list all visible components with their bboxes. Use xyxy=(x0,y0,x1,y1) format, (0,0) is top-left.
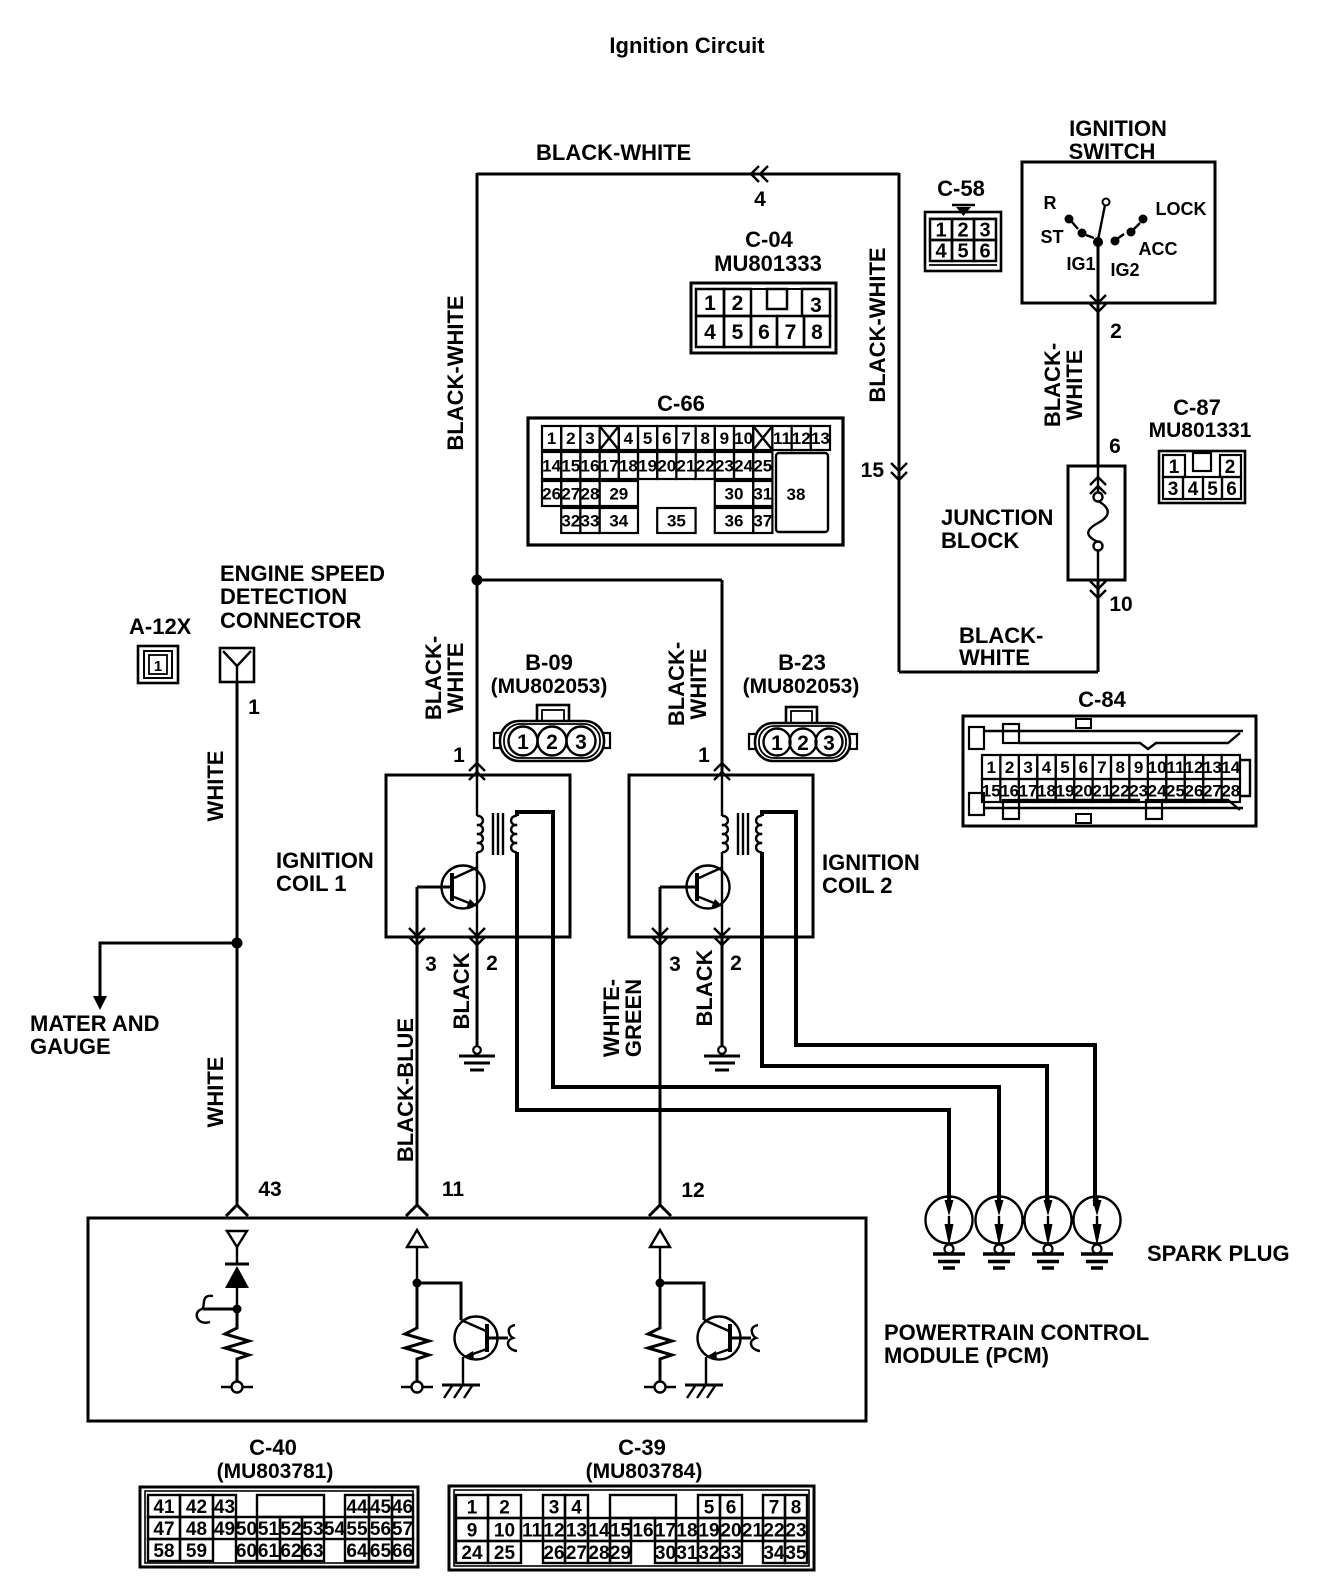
svg-text:21: 21 xyxy=(677,457,696,476)
powertrain control module label xyxy=(884,1320,1149,1368)
svg-text:20: 20 xyxy=(720,1520,741,1541)
pickup coil symbol (PCM 12) xyxy=(751,1325,760,1351)
svg-text:29: 29 xyxy=(610,1543,631,1564)
svg-text:26: 26 xyxy=(1184,782,1203,801)
svg-text:23: 23 xyxy=(1129,782,1148,801)
svg-text:48: 48 xyxy=(186,1519,207,1540)
svg-text:4: 4 xyxy=(1188,479,1199,500)
svg-text:IG2: IG2 xyxy=(1110,260,1139,280)
svg-text:13: 13 xyxy=(566,1520,587,1541)
arrow left on top bus xyxy=(751,166,768,182)
connector C-58 keying symbol xyxy=(952,205,975,216)
svg-text:C-84: C-84 xyxy=(1078,687,1126,712)
svg-text:6: 6 xyxy=(1079,758,1088,777)
svg-text:9: 9 xyxy=(1134,758,1143,777)
svg-text:57: 57 xyxy=(392,1519,413,1540)
svg-text:21: 21 xyxy=(742,1520,764,1541)
svg-text:A-12X: A-12X xyxy=(129,614,192,639)
svg-text:4: 4 xyxy=(704,321,716,344)
arrow up inside junction block xyxy=(1090,477,1106,494)
ground (PCM 12) xyxy=(685,1385,723,1398)
pin 1 label (coil 2) xyxy=(698,744,710,767)
ignition coil 1 transformer xyxy=(477,775,517,855)
label BLACK-WHITE (junction block output) xyxy=(959,623,1043,670)
svg-text:24: 24 xyxy=(461,1543,483,1564)
svg-text:WHITE: WHITE xyxy=(1062,350,1087,421)
svg-text:54: 54 xyxy=(324,1519,346,1540)
svg-text:4: 4 xyxy=(935,241,947,263)
svg-text:8: 8 xyxy=(1115,758,1124,777)
svg-text:8: 8 xyxy=(791,1497,802,1518)
engine speed detection connector symbol xyxy=(220,648,254,682)
wire top horizontal BLACK-WHITE bus xyxy=(477,173,899,176)
wire PCM 12 vertical xyxy=(659,1247,661,1283)
wire horizontal split to coil 2 xyxy=(477,579,722,582)
svg-text:27: 27 xyxy=(561,485,580,504)
svg-text:23: 23 xyxy=(715,457,734,476)
svg-text:3: 3 xyxy=(669,953,681,976)
svg-text:WHITE: WHITE xyxy=(686,649,711,720)
svg-text:1: 1 xyxy=(1169,457,1180,478)
pin 2 label (coil 2) xyxy=(730,952,742,975)
wire PCM 43 branch left xyxy=(203,1308,237,1311)
svg-text:11: 11 xyxy=(522,1520,543,1541)
connector C-58 xyxy=(925,212,1001,271)
svg-text:1: 1 xyxy=(467,1497,478,1518)
label WHITE (lower) xyxy=(203,1057,228,1128)
svg-text:59: 59 xyxy=(186,1541,207,1562)
transistor Q2 (ignition coil 2) xyxy=(660,852,730,937)
svg-text:12: 12 xyxy=(792,429,811,448)
connector C-58 label xyxy=(937,176,985,201)
svg-text:C-04: C-04 xyxy=(745,227,793,252)
svg-text:22: 22 xyxy=(696,457,715,476)
svg-text:4: 4 xyxy=(624,429,634,448)
pin 6 label xyxy=(1109,435,1121,458)
wire coil 2 feed vertical xyxy=(721,580,724,775)
wire coil 1 secondary bottom to spark plug 1 xyxy=(517,852,949,1206)
wire bottom horizontal to junction block xyxy=(899,671,1098,674)
connector C-66 xyxy=(528,418,843,545)
arrow down at pin 15 xyxy=(891,463,907,480)
svg-text:18: 18 xyxy=(619,457,638,476)
pin 15 label xyxy=(861,459,885,482)
ignition coil 2 box xyxy=(629,775,813,937)
spark plug 3 xyxy=(1025,1196,1072,1268)
pin 10 label xyxy=(1109,593,1132,616)
svg-text:60: 60 xyxy=(236,1541,257,1562)
svg-text:14: 14 xyxy=(542,457,561,476)
svg-text:MU801333: MU801333 xyxy=(714,251,822,276)
svg-text:6: 6 xyxy=(726,1497,737,1518)
pin entry marker at PCM pin 12 xyxy=(649,1205,671,1216)
svg-text:4: 4 xyxy=(571,1497,582,1518)
transistor Q1 (ignition coil 1) xyxy=(417,852,485,937)
label MATER AND GAUGE xyxy=(30,1011,160,1059)
svg-text:26: 26 xyxy=(542,485,561,504)
svg-text:12: 12 xyxy=(1184,758,1203,777)
svg-text:22: 22 xyxy=(1111,782,1130,801)
svg-text:7: 7 xyxy=(769,1497,780,1518)
node PCM 11 junction xyxy=(413,1279,422,1288)
svg-text:31: 31 xyxy=(676,1543,698,1564)
svg-text:3: 3 xyxy=(1023,758,1032,777)
pin 1 label (engine speed connector) xyxy=(248,696,260,719)
svg-text:6: 6 xyxy=(1109,435,1121,458)
svg-text:WHITE: WHITE xyxy=(959,645,1030,670)
label WHITE (upper) xyxy=(203,751,228,822)
svg-text:9: 9 xyxy=(467,1520,478,1541)
svg-text:6: 6 xyxy=(662,429,671,448)
arrow down below switch xyxy=(1090,295,1106,312)
wire left vertical BLACK-WHITE (to coils) xyxy=(476,173,479,775)
svg-text:13: 13 xyxy=(1203,758,1222,777)
svg-text:5: 5 xyxy=(704,1497,715,1518)
svg-text:C-66: C-66 xyxy=(657,391,705,416)
svg-text:MU801331: MU801331 xyxy=(1149,419,1252,442)
arrow up into coil 1 xyxy=(469,763,485,780)
connector C-87 xyxy=(1159,451,1245,503)
svg-text:65: 65 xyxy=(370,1541,392,1562)
svg-text:28: 28 xyxy=(581,485,600,504)
contact R xyxy=(1065,215,1079,230)
svg-text:43: 43 xyxy=(214,1497,235,1518)
svg-text:C-39: C-39 xyxy=(618,1435,666,1460)
svg-text:38: 38 xyxy=(787,485,806,504)
PCM pin 43 input marker xyxy=(227,1231,247,1247)
wire switch to junction block xyxy=(1097,303,1100,466)
svg-text:29: 29 xyxy=(609,485,628,504)
svg-text:13: 13 xyxy=(811,429,830,448)
ignition coil 2 label xyxy=(822,850,920,898)
arrow down coil2 pin3 xyxy=(652,928,668,945)
svg-text:25: 25 xyxy=(753,457,772,476)
resistor (PCM 12) xyxy=(648,1283,672,1382)
svg-text:24: 24 xyxy=(1148,782,1167,801)
svg-text:2: 2 xyxy=(1225,457,1236,478)
svg-text:B-23: B-23 xyxy=(778,650,826,675)
svg-text:28: 28 xyxy=(588,1543,609,1564)
pin 1 label (coil 1) xyxy=(453,744,465,767)
svg-text:DETECTION: DETECTION xyxy=(220,584,347,609)
svg-text:15: 15 xyxy=(861,459,885,482)
svg-text:4: 4 xyxy=(754,188,766,211)
svg-text:32: 32 xyxy=(561,512,580,531)
spark plug 1 xyxy=(926,1196,973,1268)
svg-text:1: 1 xyxy=(935,220,946,242)
svg-text:30: 30 xyxy=(725,485,744,504)
svg-text:31: 31 xyxy=(753,485,772,504)
svg-text:1: 1 xyxy=(986,758,995,777)
connector C-87 labels xyxy=(1149,395,1252,442)
svg-text:17: 17 xyxy=(655,1520,676,1541)
svg-text:47: 47 xyxy=(153,1519,174,1540)
svg-text:BLACK: BLACK xyxy=(449,952,474,1029)
pin 12 label xyxy=(681,1179,704,1202)
svg-text:POWERTRAIN CONTROL: POWERTRAIN CONTROL xyxy=(884,1320,1149,1345)
svg-text:MATER AND: MATER AND xyxy=(30,1011,160,1036)
svg-text:1: 1 xyxy=(248,696,260,719)
svg-text:17: 17 xyxy=(600,457,619,476)
ground (coil 2) xyxy=(704,1046,740,1070)
ignition switch label xyxy=(1069,116,1167,164)
contact LOCK xyxy=(1139,215,1148,224)
powertrain control module box xyxy=(88,1218,866,1421)
svg-text:2: 2 xyxy=(486,952,498,975)
label BLACK-WHITE (top bus) xyxy=(536,140,691,165)
svg-text:20: 20 xyxy=(1074,782,1093,801)
svg-text:10: 10 xyxy=(494,1520,515,1541)
svg-text:4: 4 xyxy=(1042,758,1052,777)
svg-text:27: 27 xyxy=(566,1543,587,1564)
PCM pin 12 input marker xyxy=(650,1230,670,1247)
wire PCM 11 branch to transistor xyxy=(417,1283,461,1320)
label BLACK (coil 2 ground wire) xyxy=(692,949,717,1026)
svg-text:6: 6 xyxy=(979,241,990,263)
svg-text:ENGINE SPEED: ENGINE SPEED xyxy=(220,561,385,586)
ignition switch common contact xyxy=(1093,237,1103,247)
arrow down coil1 pin3 xyxy=(409,928,425,945)
svg-text:35: 35 xyxy=(785,1543,807,1564)
resistor (PCM 43) xyxy=(225,1309,249,1382)
svg-text:16: 16 xyxy=(581,457,600,476)
svg-text:1: 1 xyxy=(771,732,783,755)
ignition switch lever xyxy=(1098,205,1105,240)
svg-text:IGNITION: IGNITION xyxy=(1069,116,1167,141)
wire WHITE vertical xyxy=(236,682,239,1205)
svg-text:C-58: C-58 xyxy=(937,176,985,201)
svg-text:66: 66 xyxy=(392,1541,413,1562)
contact IG2 xyxy=(1111,234,1125,246)
svg-text:GREEN: GREEN xyxy=(621,979,646,1057)
svg-text:32: 32 xyxy=(698,1543,719,1564)
svg-text:BLACK: BLACK xyxy=(692,949,717,1026)
svg-text:63: 63 xyxy=(302,1541,323,1562)
svg-text:6: 6 xyxy=(1226,479,1237,500)
pin 2 label (coil 1) xyxy=(486,952,498,975)
connector C-66 label xyxy=(657,391,705,416)
svg-text:46: 46 xyxy=(392,1497,413,1518)
svg-text:18: 18 xyxy=(676,1520,697,1541)
connector A-12X xyxy=(138,646,178,683)
pin 11 label xyxy=(442,1178,465,1201)
arrow down coil1 pin2 xyxy=(469,928,485,945)
connector B-23 xyxy=(749,707,857,761)
svg-text:62: 62 xyxy=(280,1541,301,1562)
spark plug 2 xyxy=(976,1196,1023,1268)
wire junction block down xyxy=(1097,580,1100,672)
wire BLACK-BLUE coil1 pin3 to PCM 11 xyxy=(416,887,419,1205)
svg-text:1: 1 xyxy=(517,731,529,754)
svg-text:2: 2 xyxy=(957,220,968,242)
svg-text:45: 45 xyxy=(370,1497,392,1518)
svg-text:8: 8 xyxy=(811,321,823,344)
svg-text:IG1: IG1 xyxy=(1066,254,1095,274)
svg-text:3: 3 xyxy=(810,294,822,317)
svg-text:14: 14 xyxy=(588,1520,610,1541)
wire PCM 11 vertical xyxy=(416,1247,418,1283)
svg-text:2: 2 xyxy=(732,292,744,315)
label BLACK-WHITE (coil 2 feed) xyxy=(664,642,711,726)
svg-text:3: 3 xyxy=(979,220,990,242)
svg-text:10: 10 xyxy=(1109,593,1132,616)
ignition switch box xyxy=(1022,162,1215,303)
resistor (PCM 11) xyxy=(405,1283,429,1382)
svg-text:3: 3 xyxy=(549,1497,560,1518)
svg-text:WHITE: WHITE xyxy=(203,751,228,822)
transistor (PCM 12) xyxy=(698,1317,752,1386)
svg-text:53: 53 xyxy=(302,1519,323,1540)
svg-text:61: 61 xyxy=(258,1541,280,1562)
svg-text:6: 6 xyxy=(758,321,770,344)
connector C-84 xyxy=(963,716,1256,826)
engine speed detection connector label xyxy=(220,561,385,633)
junction block label xyxy=(941,505,1053,553)
svg-text:55: 55 xyxy=(346,1519,368,1540)
svg-text:LOCK: LOCK xyxy=(1156,199,1207,219)
svg-text:26: 26 xyxy=(543,1543,564,1564)
svg-text:3: 3 xyxy=(823,732,835,755)
svg-text:34: 34 xyxy=(609,512,628,531)
svg-text:51: 51 xyxy=(258,1519,280,1540)
node junction to meter xyxy=(232,938,243,949)
svg-text:7: 7 xyxy=(785,321,797,344)
svg-text:10: 10 xyxy=(734,429,753,448)
coil pickup symbol (PCM 43) xyxy=(197,1296,213,1323)
svg-text:CONNECTOR: CONNECTOR xyxy=(220,608,361,633)
svg-text:BLACK-WHITE: BLACK-WHITE xyxy=(443,295,468,450)
svg-text:(MU803784): (MU803784) xyxy=(586,1460,703,1483)
svg-text:15: 15 xyxy=(610,1520,632,1541)
arrow up into coil 2 xyxy=(714,763,730,780)
svg-text:5: 5 xyxy=(957,241,968,263)
svg-text:(MU802053): (MU802053) xyxy=(491,675,608,698)
svg-text:37: 37 xyxy=(753,512,772,531)
terminal (PCM 12) xyxy=(644,1382,676,1393)
svg-text:(MU803781): (MU803781) xyxy=(217,1460,334,1483)
svg-text:SWITCH: SWITCH xyxy=(1069,139,1156,164)
svg-text:1: 1 xyxy=(154,658,162,675)
svg-text:52: 52 xyxy=(280,1519,301,1540)
connector B-23 labels xyxy=(743,650,860,698)
svg-text:41: 41 xyxy=(153,1497,175,1518)
svg-text:IGNITION: IGNITION xyxy=(276,848,374,873)
svg-text:20: 20 xyxy=(657,457,676,476)
label BLACK-BLUE xyxy=(393,1018,418,1162)
ground (PCM 11) xyxy=(442,1385,480,1398)
svg-text:2: 2 xyxy=(1110,320,1122,343)
svg-text:BLACK-WHITE: BLACK-WHITE xyxy=(865,247,890,402)
svg-text:23: 23 xyxy=(785,1520,806,1541)
svg-text:R: R xyxy=(1044,193,1057,213)
svg-text:8: 8 xyxy=(700,429,709,448)
label BLACK-WHITE (switch wire) xyxy=(1040,343,1087,427)
svg-text:21: 21 xyxy=(1092,782,1111,801)
svg-text:30: 30 xyxy=(655,1543,676,1564)
wire PCM 12 branch to transistor xyxy=(660,1283,704,1320)
contact ACC xyxy=(1127,223,1141,237)
svg-text:JUNCTION: JUNCTION xyxy=(941,505,1053,530)
label BLACK-WHITE (left vertical) xyxy=(443,295,468,450)
node junction coil feed split xyxy=(472,575,483,586)
svg-text:50: 50 xyxy=(236,1519,257,1540)
svg-text:7: 7 xyxy=(681,429,690,448)
svg-text:9: 9 xyxy=(720,429,729,448)
connector C-04 labels xyxy=(714,227,822,276)
connector C-84 label xyxy=(1078,687,1126,712)
svg-text:1: 1 xyxy=(547,429,556,448)
node PCM 12 junction xyxy=(656,1279,665,1288)
arrow down below junction block xyxy=(1090,581,1106,598)
svg-text:33: 33 xyxy=(581,512,600,531)
svg-text:28: 28 xyxy=(1221,782,1240,801)
ignition coil 1 box xyxy=(386,775,570,937)
svg-text:49: 49 xyxy=(214,1519,235,1540)
svg-text:BLACK-WHITE: BLACK-WHITE xyxy=(536,140,691,165)
svg-text:IGNITION: IGNITION xyxy=(822,850,920,875)
svg-text:11: 11 xyxy=(1167,758,1185,777)
svg-text:14: 14 xyxy=(1221,758,1240,777)
title Ignition Circuit xyxy=(609,33,765,58)
pin entry marker at PCM pin 43 xyxy=(226,1205,248,1216)
svg-text:16: 16 xyxy=(632,1520,653,1541)
svg-text:25: 25 xyxy=(494,1543,516,1564)
svg-text:ST: ST xyxy=(1040,227,1063,247)
svg-text:5: 5 xyxy=(732,321,744,344)
svg-text:33: 33 xyxy=(720,1543,741,1564)
pin 3 label (coil 1) xyxy=(425,953,437,976)
label BLACK (coil 1 ground wire) xyxy=(449,952,474,1029)
terminal (PCM 11) xyxy=(401,1382,433,1393)
svg-text:18: 18 xyxy=(1037,782,1056,801)
fusible link symbol xyxy=(1088,466,1108,580)
svg-text:3: 3 xyxy=(1168,479,1179,500)
svg-text:27: 27 xyxy=(1203,782,1222,801)
svg-text:64: 64 xyxy=(346,1541,368,1562)
svg-text:12: 12 xyxy=(543,1520,564,1541)
svg-text:Ignition Circuit: Ignition Circuit xyxy=(609,33,765,58)
wire coil 1 secondary top to spark plug 2 xyxy=(517,812,999,1206)
svg-text:COIL 1: COIL 1 xyxy=(276,871,347,896)
svg-text:34: 34 xyxy=(763,1543,785,1564)
svg-text:19: 19 xyxy=(1055,782,1074,801)
wire switch output xyxy=(1097,242,1100,303)
svg-text:2: 2 xyxy=(797,732,809,755)
svg-text:22: 22 xyxy=(763,1520,784,1541)
svg-text:C-40: C-40 xyxy=(249,1435,297,1460)
svg-text:GAUGE: GAUGE xyxy=(30,1034,111,1059)
svg-text:3: 3 xyxy=(425,953,437,976)
contact ST xyxy=(1078,229,1095,239)
svg-text:56: 56 xyxy=(370,1519,391,1540)
svg-text:35: 35 xyxy=(667,512,686,531)
svg-text:3: 3 xyxy=(585,429,594,448)
connector B-09 xyxy=(494,705,610,761)
svg-text:1: 1 xyxy=(704,292,716,315)
label WHITE-GREEN xyxy=(599,979,646,1057)
svg-text:C-87: C-87 xyxy=(1173,395,1221,420)
svg-text:MODULE (PCM): MODULE (PCM) xyxy=(884,1343,1049,1368)
svg-text:7: 7 xyxy=(1097,758,1106,777)
svg-text:25: 25 xyxy=(1166,782,1185,801)
svg-text:11: 11 xyxy=(442,1178,465,1201)
svg-text:COIL 2: COIL 2 xyxy=(822,873,893,898)
arrow down coil2 pin2 xyxy=(714,928,730,945)
svg-text:1: 1 xyxy=(698,744,710,767)
svg-text:B-09: B-09 xyxy=(525,650,573,675)
svg-text:2: 2 xyxy=(566,429,575,448)
svg-text:ACC: ACC xyxy=(1139,239,1178,259)
